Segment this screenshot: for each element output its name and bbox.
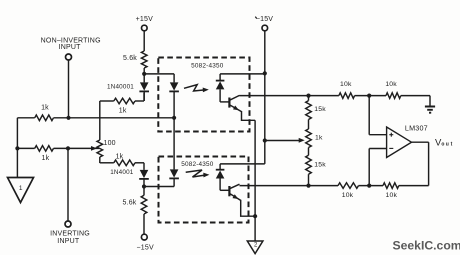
resistor 10k (top left) [339, 93, 355, 99]
node LED series midpoint [172, 116, 176, 120]
label 10k [342, 192, 354, 199]
resistor 1k (non-inverting arm) [35, 115, 54, 121]
wire non-inverting input lead [68, 60, 70, 118]
resistor 5.6k (lower LED bias) [141, 195, 147, 214]
wire inverting input lead [67, 148, 69, 221]
watermark SeekIC.com [393, 238, 460, 252]
svg-text:5082-4350: 5082-4350 [191, 63, 224, 70]
wire pot-bottom to 1N4001 [100, 163, 144, 170]
wire top input rail (wire1) [17, 117, 174, 119]
wire bottom collector rail [240, 185, 429, 187]
wire Q2 emitter to common-2 [241, 200, 255, 216]
wire 100-ohm pot body line [99, 101, 101, 163]
optocoupler U2 dashed outline 5082-4350 [159, 157, 249, 223]
label 1k [116, 154, 124, 161]
wire 5.6k to -15V terminal [143, 214, 145, 234]
svg-text:10k: 10k [340, 81, 352, 88]
LED D1 (upper emitter diode) [169, 74, 179, 118]
svg-text:1N40001: 1N40001 [107, 83, 134, 90]
node bottom rail / 15k [306, 184, 310, 188]
label -15V (right supply) [255, 16, 273, 23]
svg-text:2: 2 [254, 243, 258, 249]
wire common-2 line [254, 120, 256, 241]
label NON-INVERTING INPUT [41, 37, 101, 51]
label 1 [19, 185, 23, 192]
node bottom rail / op-amp - [367, 184, 371, 188]
wire 5.6k to node [143, 68, 145, 74]
resistor 1k (lower balance arm) [114, 160, 135, 166]
wire divider column [308, 96, 310, 186]
svg-text:LM307: LM307 [405, 123, 428, 132]
node wire1 junction non-inverting [66, 116, 70, 120]
wire op-amp - input riser [369, 149, 386, 186]
wire top collector rail [240, 96, 431, 106]
terminal -15V supply (right) [262, 25, 268, 31]
label -15V (bottom) [137, 245, 154, 252]
terminal non-inverting input [66, 54, 72, 60]
wire LED2 cathode to 5.6k node [144, 186, 174, 188]
terminal inverting input [65, 221, 71, 227]
svg-text:10k: 10k [342, 192, 354, 199]
label 15k [314, 162, 326, 169]
resistor 15k (lower) [306, 155, 312, 174]
label 1k [315, 135, 323, 142]
photodiode upper [216, 74, 225, 102]
wire -15V rail [220, 31, 265, 164]
diode 1N40001 (upper clamp) [139, 74, 149, 101]
light arrow lower [186, 170, 210, 177]
node lower LED/5.6k junction [142, 184, 146, 188]
svg-text:5082-4350: 5082-4350 [181, 161, 214, 168]
label 100 [104, 140, 116, 147]
svg-text:100: 100 [104, 140, 116, 147]
resistor 1k (upper balance arm) [114, 98, 135, 104]
label 2 [254, 243, 258, 249]
svg-text:1N4001: 1N4001 [110, 169, 134, 176]
wiper arrowhead into 100 ohm pot [91, 146, 97, 151]
svg-text:INVERTING: INVERTING [50, 231, 90, 238]
wire photodiode top to -15V rail [220, 73, 265, 75]
diode 1N4001 (lower clamp) [139, 170, 149, 187]
photodiode lower [216, 164, 225, 190]
svg-text:5.6k: 5.6k [123, 55, 137, 62]
common symbol 1 (input ground) [8, 178, 34, 203]
resistor 5.6k (upper LED bias) [141, 51, 147, 68]
wire LED midpoint down to LED2 [173, 118, 175, 170]
node emitter common junction [253, 214, 257, 218]
light arrow upper [184, 85, 209, 93]
label INVERTING INPUT [50, 231, 90, 246]
label LM307 [405, 123, 428, 132]
label +15V [136, 16, 153, 23]
wire lower input rail (wire2) to pot wiper [17, 147, 99, 149]
potentiometer 1k (balance) [306, 129, 312, 148]
svg-text:10k: 10k [385, 81, 397, 88]
arrowhead balance pot wiper [299, 138, 305, 143]
node top rail / 15k [306, 94, 310, 98]
svg-text:10k: 10k [386, 192, 398, 199]
label 5082-4350 [191, 63, 224, 70]
svg-text:1k: 1k [42, 155, 50, 162]
ground symbol [425, 107, 435, 113]
label 10k [386, 192, 398, 199]
label 10k [340, 81, 352, 88]
node top rail / op-amp + [367, 94, 371, 98]
node LED drive upper [142, 72, 146, 76]
svg-text:u: u [446, 142, 450, 148]
wire wiper to balance pot [265, 140, 302, 142]
svg-text:5.6k: 5.6k [122, 200, 136, 207]
svg-text:t: t [451, 142, 454, 148]
resistor 10k (feedback) [383, 183, 399, 189]
label 5082-4350 [181, 161, 214, 168]
label 1k [42, 155, 50, 162]
resistor 15k (upper) [306, 101, 312, 120]
label 1k [41, 105, 49, 112]
svg-text:SeekIC.com: SeekIC.com [393, 238, 460, 252]
wire pot-top to 1N40001 [100, 93, 144, 101]
potentiometer 100 [97, 140, 103, 157]
svg-text:15k: 15k [314, 162, 326, 169]
svg-text:+15V: +15V [136, 16, 153, 23]
transistor Q1 (upper phototransistor) [220, 95, 241, 111]
resistor 10k (top right) [386, 93, 401, 99]
wire op-amp output / feedback [412, 142, 429, 185]
label 1k [119, 108, 127, 115]
svg-text:INPUT: INPUT [57, 238, 80, 245]
label 5.6k [122, 200, 136, 207]
wire Q1 emitter to common-2 [242, 111, 256, 120]
svg-text:1k: 1k [116, 154, 124, 161]
wire op-amp + input riser [369, 96, 386, 135]
node pot wiper junction on rail [263, 138, 267, 142]
label 1N4001 [110, 169, 134, 176]
svg-text:1k: 1k [315, 135, 323, 142]
optocoupler U1 dashed outline 5082-4350 [158, 58, 249, 132]
wire node to 5.6k [143, 187, 145, 196]
op-amp U3 LM307 [387, 127, 412, 158]
svg-text:INPUT: INPUT [59, 44, 82, 51]
label 5.6k [123, 55, 137, 62]
transistor Q2 (lower phototransistor) [220, 184, 241, 200]
wire +15V to 5.6k [143, 31, 145, 51]
wire input common line [16, 118, 18, 178]
node common/wire2 junction [15, 146, 19, 150]
common symbol 2 (output common) [247, 241, 263, 254]
resistor 1k (inverting arm) [35, 146, 54, 152]
label 10k [385, 81, 397, 88]
node photodiode/-15V junction [263, 71, 267, 75]
terminal -15V supply (bottom) [141, 234, 147, 240]
label 15k [314, 106, 326, 113]
node wire2 junction inverting [66, 146, 70, 150]
svg-text:−15V: −15V [256, 16, 273, 23]
svg-text:1: 1 [19, 185, 23, 192]
label Vout [435, 137, 454, 148]
svg-text:−15V: −15V [137, 245, 154, 252]
wire LED1 anode feed [144, 73, 174, 75]
svg-text:15k: 15k [314, 106, 326, 113]
resistor 10k (bottom left) [338, 183, 359, 189]
LED D2 (lower emitter diode) [169, 169, 179, 186]
label 1N40001 [107, 83, 134, 90]
svg-text:1k: 1k [41, 105, 49, 112]
svg-text:1k: 1k [119, 108, 127, 115]
terminal +15V supply [142, 25, 148, 31]
